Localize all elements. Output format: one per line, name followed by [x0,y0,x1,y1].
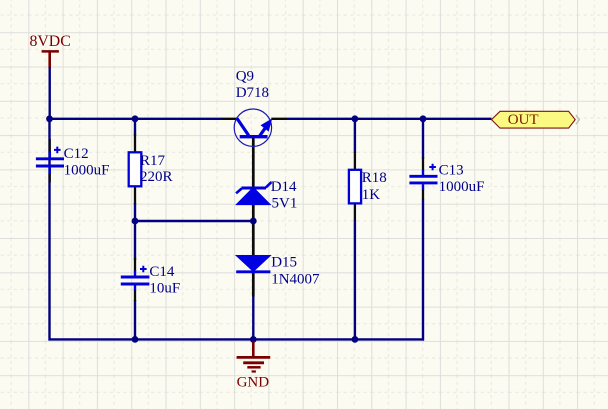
junction: C13 top node [420,115,427,122]
svg-text:Q9: Q9 [236,68,254,84]
svg-text:1N4007: 1N4007 [271,272,320,288]
capacitor C14 [121,266,150,291]
junction: 8VDC input node [46,115,53,122]
pin: node to D15 anode [252,222,255,256]
capacitor C12 [36,147,64,174]
wire: D15 to bottom rail [252,296,254,339]
svg-text:1K: 1K [362,187,381,203]
junction: R18 top node [352,115,359,122]
pin: R17 pins [134,134,136,204]
transistor Q9 [234,109,271,146]
svg-text:R17: R17 [140,153,166,169]
pin: C14 pins [134,258,136,301]
svg-text:OUT: OUT [508,112,539,128]
wire: top rail left (node to transistor) [50,118,222,120]
pin: Q9 base / D14 cathode pin [252,138,255,188]
wire: 8VDC stub to top rail [49,67,51,119]
svg-text:R18: R18 [362,170,387,186]
pin: R18 pins [354,152,356,221]
pin: D15 cathode down [252,272,255,297]
svg-text:C14: C14 [149,264,175,280]
ground GND symbol [237,341,271,372]
svg-text:10uF: 10uF [149,281,180,297]
junction: zener node [250,218,257,225]
svg-text:C12: C12 [64,146,89,162]
diode D15 [236,256,270,272]
junction: R17 top node [132,115,139,122]
svg-text:220R: 220R [140,169,173,185]
svg-text:C13: C13 [439,163,464,179]
wire: left rail down (C12 branch) [48,119,50,341]
svg-text:D14: D14 [271,179,297,195]
junction: GND node [250,336,257,343]
svg-text:8VDC: 8VDC [30,33,71,50]
wire: top rail to R18 [354,119,356,153]
port OUT [492,111,580,128]
wire: top rail right (transistor to port) [287,118,492,120]
capacitor C13 [409,164,437,190]
pin: C13 pins [422,157,424,200]
junction: C14 bottom node [132,336,139,343]
wire: R18 to bottom rail [354,220,356,339]
svg-text:5V1: 5V1 [272,196,298,212]
wire: mid link R17/C14 to zener node [135,220,253,222]
wire: bottom rail [50,338,425,340]
wire: top rail to C13 [422,119,424,159]
resistor R18 [349,170,361,204]
wire: C13 to bottom rail [422,200,424,341]
power port 8VDC bar [42,51,59,67]
svg-text:GND: GND [237,375,270,391]
svg-text:1000uF: 1000uF [439,179,485,195]
svg-text:D718: D718 [236,85,269,101]
zener diode D14 [236,182,271,205]
pin: C12 pins (black) [49,139,51,183]
junction: R17/C14 mid node [132,218,139,225]
wire: C14 to bottom rail [134,300,136,339]
junction: R18 bottom node [352,336,359,343]
wire: mid node to C14 [134,221,136,260]
svg-text:D15: D15 [271,254,297,270]
wire: R17 to mid node [134,203,136,221]
wire: top rail to R17 [134,119,136,136]
pin: D14 anode to node [252,205,255,220]
pin: Q9 collector/emitter pins [221,118,287,120]
resistor R17 [129,152,142,186]
svg-text:1000uF: 1000uF [64,163,110,179]
